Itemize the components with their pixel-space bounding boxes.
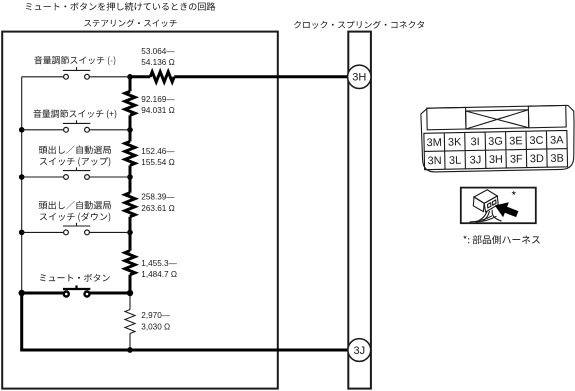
svg-text:3K: 3K [448, 136, 462, 148]
connector pinout: clock spring connector face view [421, 105, 575, 172]
svg-text:3D: 3D [530, 153, 544, 165]
connector latch wing right [528, 105, 566, 127]
box: clock spring connector [348, 32, 371, 389]
icon: harness wires [479, 210, 502, 222]
junction node bus row2 [127, 127, 133, 133]
junction node bus row3 [127, 174, 133, 180]
icon: connector cube top face [474, 190, 497, 204]
switch SW3 seek up: contacts and actuator [22, 167, 130, 179]
junction node bus/bottom [127, 347, 133, 353]
wire: resistor bus segment 1 (thick) [129, 77, 132, 92]
box: steering switch unit [2, 32, 278, 389]
connector latch box with X [466, 110, 529, 129]
resistor R6 (2970-3030 ohm) with leads [129, 293, 131, 310]
junction node bus/R1 [127, 74, 133, 80]
svg-text:3H: 3H [352, 72, 366, 84]
icon: connector cube left face [473, 197, 484, 212]
junction node rail/mute [19, 290, 25, 296]
svg-text:1,484.7 Ω: 1,484.7 Ω [141, 270, 177, 279]
junction node rail row4 [19, 230, 25, 236]
svg-text:3B: 3B [550, 153, 564, 165]
connector latch wing left [427, 107, 466, 129]
label: volume switch (+) [33, 110, 116, 119]
svg-text:3J: 3J [353, 345, 365, 357]
icon: arrow pointing at connector [495, 202, 519, 217]
wire: resistor bus segment 2 (thick) [129, 115, 132, 141]
note: part-side harness [463, 235, 540, 244]
junction node bus/mute [127, 290, 133, 296]
svg-text:3L: 3L [449, 155, 461, 167]
junction node bus row4 [127, 230, 133, 236]
icon: connector cube front face with pins [484, 196, 498, 212]
svg-text:258.39—: 258.39— [141, 193, 175, 202]
label: steering switch [84, 19, 177, 27]
svg-text:3I: 3I [470, 136, 479, 148]
svg-text:3M: 3M [427, 137, 443, 149]
svg-text:3,030 Ω: 3,030 Ω [141, 322, 170, 331]
wire: left rail (thin) [21, 77, 23, 293]
svg-text:53.064—: 53.064— [141, 47, 175, 56]
label: volume switch (-) [34, 56, 115, 65]
terminal 3H [348, 65, 371, 88]
switch SW2 volume up: contacts and actuator [22, 120, 130, 132]
resistor R1 (53-54 ohm) [150, 72, 174, 82]
wire: bottom run to 3J (thick) [20, 349, 348, 352]
label: clock spring connector [294, 21, 424, 29]
wire: top run from bus to R1 (thick) [130, 75, 150, 78]
svg-text:94.031 Ω: 94.031 Ω [141, 106, 174, 115]
svg-text:152.46—: 152.46— [141, 147, 175, 156]
svg-text:3C: 3C [529, 135, 543, 147]
wire: left rail lower (thick, mute path) [20, 293, 23, 350]
svg-text:3G: 3G [488, 136, 503, 148]
label: seek/auto-tune line1 (down) [39, 201, 111, 210]
wire: R1 to terminal 3H (thick) [174, 75, 348, 78]
wire: resistor bus segment 4 (thick) [129, 217, 132, 251]
svg-text:3J: 3J [470, 154, 482, 166]
svg-text:3F: 3F [510, 153, 523, 165]
switch SW1 volume down: contacts and actuator [22, 67, 130, 79]
label: mute button [40, 274, 110, 282]
svg-text:263.61 Ω: 263.61 Ω [141, 204, 174, 213]
terminal 3J [348, 339, 371, 362]
connector pin grid [424, 130, 568, 169]
junction node rail row2 [19, 127, 25, 133]
svg-text:92.169—: 92.169— [141, 95, 175, 104]
label: seek switch (up) line2 [40, 157, 111, 166]
resistor R3 (152-155 ohm) [125, 141, 135, 165]
svg-text:2,970—: 2,970— [141, 311, 170, 320]
junction node rail row3 [19, 174, 25, 180]
wire: resistor bus segment 3 (thick) [129, 165, 132, 192]
resistor R5 (1455-1484 ohm) [125, 251, 135, 275]
svg-text:3N: 3N [427, 155, 441, 167]
svg-text:3E: 3E [509, 135, 523, 147]
svg-text:155.54 Ω: 155.54 Ω [141, 158, 174, 167]
svg-text:3H: 3H [489, 154, 503, 166]
label: seek/auto-tune line1 (up) [39, 146, 111, 155]
icon: asterisk marker [512, 191, 516, 195]
resistor R4 (258-263 ohm) [125, 193, 135, 217]
svg-text:3A: 3A [550, 134, 564, 146]
svg-text:54.136 Ω: 54.136 Ω [141, 58, 174, 67]
icon box: part-side harness [461, 188, 536, 224]
connector housing outline [421, 105, 575, 172]
label: seek switch (down) line2 [40, 212, 111, 222]
switch SW4 seek down: contacts and actuator [22, 223, 130, 235]
svg-text:1,455.3—: 1,455.3— [141, 259, 177, 268]
resistor R2 (92-94 ohm) [125, 91, 135, 115]
switch SW5 mute button (closed-path emphasis) [22, 285, 130, 296]
title: mute-button-held circuit [26, 2, 216, 10]
wire: resistor bus segment 5 (thick) [129, 275, 132, 293]
